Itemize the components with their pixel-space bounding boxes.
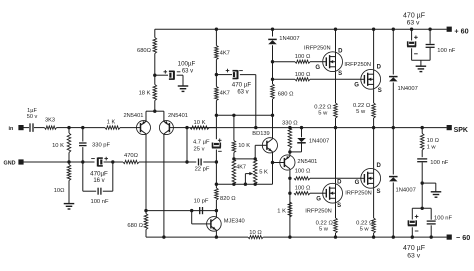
node gate1 junction [271, 60, 274, 63]
svg-text:22 pF: 22 pF [195, 166, 210, 172]
wire 1K to Q1 base [120, 127, 137, 129]
svg-text:G: G [354, 83, 359, 89]
wire Q2 base to feedback node [173, 127, 187, 129]
svg-text:50 v: 50 v [27, 114, 38, 120]
svg-text:100 nF: 100 nF [437, 48, 456, 54]
node +60 terminal [447, 27, 469, 36]
resistor 470Ω feedback [113, 153, 139, 164]
node gate3 junction [288, 177, 291, 180]
wire top rail [155, 28, 447, 30]
wire Q3 collector [289, 152, 291, 155]
svg-text:2N5401: 2N5401 [168, 113, 188, 119]
wire top to 4K7a [215, 29, 217, 45]
svg-text:680Ω: 680Ω [137, 48, 152, 54]
node clamp bottom junction [392, 235, 395, 238]
svg-text:25 v: 25 v [194, 146, 205, 152]
node Q2 collector bottom [162, 235, 165, 238]
resistor 100Ω gate M4 [294, 169, 361, 180]
svg-text:5 w: 5 w [356, 109, 366, 115]
wire Q2 collector down [163, 134, 165, 237]
svg-text:S: S [338, 71, 342, 77]
node -rail 100nF junction [430, 235, 433, 238]
svg-text:4K7: 4K7 [220, 51, 230, 57]
svg-text:1N4007: 1N4007 [396, 187, 416, 193]
diode 1N4007 clamp lower [389, 128, 416, 238]
svg-text:2N5401: 2N5401 [124, 113, 144, 119]
resistor 1K input [105, 119, 120, 129]
wire 3K3 to node A [57, 127, 70, 129]
transistor MJE340 VAS [207, 217, 245, 232]
node VAS-left junction [215, 114, 218, 117]
transistor Q3 2N5401 current limiter [280, 155, 318, 170]
node top rail ladder2 [215, 28, 218, 31]
node topright 100nF junction [428, 28, 431, 31]
svg-text:63 v: 63 v [407, 253, 420, 260]
resistor 4K7 bias [232, 159, 246, 184]
node output zobel junction [421, 126, 424, 129]
node A junction [67, 126, 70, 129]
svg-text:1N4007: 1N4007 [279, 36, 299, 42]
resistor 100Ω gate M2 [273, 72, 361, 81]
capacitor 100nF -rail filter [427, 208, 453, 237]
node mid-left junction [144, 209, 147, 212]
wire in pad to C1 [22, 127, 29, 129]
svg-text:330 Ω: 330 Ω [282, 120, 298, 126]
svg-text:820 Ω: 820 Ω [220, 196, 236, 202]
svg-text:+ 60: + 60 [454, 27, 468, 36]
node ladder2-bias2 junction [215, 183, 218, 186]
svg-text:4K7: 4K7 [220, 91, 230, 97]
diode 1N4007 clamp upper [389, 29, 418, 127]
node topright 470µF junction [410, 28, 413, 31]
svg-text:5 w: 5 w [319, 227, 329, 233]
svg-text:16 v: 16 v [93, 178, 104, 184]
svg-text:680 Ω: 680 Ω [127, 223, 143, 229]
wire tail to Q1 emitter [146, 111, 155, 121]
resistor 10K bias [232, 141, 250, 159]
resistor 820Ω [215, 184, 237, 210]
svg-text:100µF: 100µF [178, 61, 196, 68]
node bias2 4K7 junction [232, 183, 235, 186]
wire node B to R 1K [83, 127, 105, 129]
resistor 0.22Ω 5w M1 source [314, 72, 337, 128]
svg-text:10 Ω: 10 Ω [427, 138, 440, 144]
node MJE base junction [190, 209, 193, 212]
svg-text:MJE340: MJE340 [224, 219, 245, 225]
svg-text:S: S [377, 189, 381, 195]
wire topright join [412, 60, 431, 66]
wire gnd pad to 10K bottom [22, 161, 69, 163]
ground symbol decoupling [178, 86, 189, 91]
svg-text:470Ω: 470Ω [124, 153, 139, 159]
svg-text:1 w: 1 w [427, 145, 437, 151]
wire Q3 base [273, 162, 280, 164]
resistor 330Ω [282, 120, 298, 152]
svg-text:− 60: − 60 [456, 233, 470, 242]
node VAS-10K junction [232, 114, 235, 117]
svg-text:63 v: 63 v [407, 20, 420, 27]
svg-text:1N4007: 1N4007 [398, 86, 418, 92]
svg-text:63 v: 63 v [182, 69, 193, 75]
svg-text:D: D [377, 163, 382, 169]
capacitor 100µF 63v decoupling [155, 61, 196, 86]
capacitor 470µF 63v +rail filter [403, 12, 425, 60]
capacitor 100nF +rail filter [426, 29, 456, 60]
wire 470Ω to feedback node [139, 161, 187, 163]
diode 1N4007 gate clamp bottom [290, 128, 329, 152]
resistor 680Ω gate ladder [271, 79, 294, 115]
node VAS collector junction [215, 209, 218, 212]
resistor 680Ω upper-left [137, 38, 157, 55]
wire 680Ω to node D [154, 54, 156, 76]
wire to node C [69, 161, 83, 163]
svg-text:63 v: 63 v [237, 89, 248, 95]
node feedback bottom junction [185, 160, 188, 163]
resistor 10K feedback [190, 120, 209, 129]
node Q3 collector junction [288, 150, 291, 153]
node tail junction [153, 110, 156, 113]
wire Q1 collector down [145, 134, 147, 210]
svg-text:1 K: 1 K [277, 208, 286, 214]
svg-text:100 nF: 100 nF [90, 199, 109, 205]
svg-text:680 Ω: 680 Ω [278, 91, 294, 97]
wire ladder2 crossing signal [215, 115, 217, 139]
node B junction [81, 126, 84, 129]
node E junction [215, 73, 218, 76]
wire 22pF node down [215, 162, 217, 184]
node M3 source bottom [334, 235, 337, 238]
transistor Q2 2N5401 [159, 113, 188, 135]
svg-text:5 w: 5 w [360, 227, 370, 233]
wire bootstrap down to output rail [255, 75, 257, 128]
wire mid row [146, 210, 216, 212]
svg-text:D: D [377, 64, 382, 70]
wire M1 drain [335, 29, 337, 52]
resistor 4K7 lower [215, 75, 230, 116]
wire M3 drain [335, 128, 337, 184]
wire ground node down [421, 183, 423, 208]
node bootstrap junction [254, 126, 257, 129]
node SPK terminal [447, 125, 468, 134]
resistor 10K to ground [52, 128, 71, 162]
node BD139 emitter junction [271, 161, 274, 164]
wire bias1 row [234, 158, 255, 160]
node bias1-right junction [254, 157, 257, 160]
node M4 source bottom [372, 235, 375, 238]
capacitor 4.7µF 25v [193, 139, 222, 163]
resistor 0.22Ω 5w M3 source [316, 203, 338, 237]
svg-text:2N5401: 2N5401 [297, 159, 317, 165]
diode 1N4007 gate clamp top [268, 29, 299, 62]
wire output rail [187, 127, 447, 129]
capacitor 100nF feedback bypass loop [83, 162, 113, 205]
svg-text:470 µF: 470 µF [232, 82, 252, 89]
wire MJE base [192, 211, 207, 224]
ground symbol chassis [64, 204, 75, 209]
node output diode3 junction [300, 126, 303, 129]
svg-text:0.22 Ω: 0.22 Ω [316, 220, 334, 226]
svg-text:470µF: 470µF [90, 170, 108, 177]
node zobel ground junction [421, 181, 424, 184]
node GND terminal [4, 159, 24, 166]
ground symbol topright [416, 66, 427, 71]
resistor 100Ω gate M1 [273, 54, 323, 64]
wire zobel to ground [422, 183, 436, 192]
resistor 0.22Ω 5w M4 source [356, 188, 375, 237]
resistor 0.22Ω 5w M2 source [353, 89, 375, 127]
node gate2 junction [271, 78, 274, 81]
svg-text:S: S [337, 203, 341, 209]
node output M1 junction [334, 126, 337, 129]
wire node A to node B [69, 127, 83, 129]
resistor 10Ω to chassis ground [54, 162, 71, 203]
svg-text:100 Ω: 100 Ω [295, 54, 311, 60]
capacitor 470µF 63v bootstrap [216, 69, 255, 96]
svg-text:G: G [355, 180, 360, 186]
svg-text:4K7: 4K7 [236, 165, 246, 171]
node top rail M1 junction [334, 28, 337, 31]
node output clamp junction [392, 126, 395, 129]
ground symbol zobel [431, 192, 442, 197]
transistor M2 IRFP250N [344, 62, 381, 94]
node -rail 470µF junction [411, 235, 414, 238]
svg-text:100 Ω: 100 Ω [295, 72, 311, 78]
capacitor 100nF zobel [417, 159, 449, 183]
node output M2 junction [372, 126, 375, 129]
node top rail M2 junction [372, 28, 375, 31]
svg-text:4.7 µF: 4.7 µF [193, 140, 210, 146]
node top rail clamp junction [392, 28, 395, 31]
resistor 10Ω 1w zobel [420, 128, 439, 158]
svg-text:5 K: 5 K [259, 170, 268, 176]
node C junction [81, 160, 84, 163]
svg-text:GND: GND [4, 161, 16, 167]
svg-text:330 pF: 330 pF [92, 143, 111, 149]
trimmer 5K [253, 159, 268, 184]
capacitor 470µF 63v -rail filter [403, 208, 425, 259]
transistor M4 IRFP250N [345, 163, 381, 196]
wire BD139 base [255, 145, 262, 159]
svg-text:1 K: 1 K [107, 119, 116, 125]
node top rail gate-ladder junction [271, 28, 274, 31]
svg-text:SPK: SPK [454, 127, 468, 134]
transistor BD139 bias servo [252, 131, 277, 153]
svg-text:D: D [338, 49, 343, 55]
svg-text:BD139: BD139 [252, 131, 269, 137]
wire feedback vertical [186, 128, 188, 162]
svg-text:0.22 Ω: 0.22 Ω [356, 220, 374, 226]
transistor Q1 2N5401 [124, 113, 151, 135]
node shunt-right junction [111, 160, 114, 163]
svg-text:S: S [378, 88, 382, 94]
capacitor 22pF [187, 159, 216, 173]
svg-text:10 Ω: 10 Ω [249, 230, 262, 236]
wire VAS rail [216, 114, 272, 116]
wire BD139 emitter down [272, 152, 274, 162]
wire 4K7a to node E [215, 60, 217, 75]
svg-text:IRFP250N: IRFP250N [345, 191, 372, 197]
wire M4 drain [373, 128, 375, 169]
resistor 18K tail [139, 75, 157, 111]
wire top rail left segment [154, 29, 156, 37]
svg-text:IRFP250N: IRFP250N [304, 46, 331, 52]
svg-text:10 K: 10 K [194, 120, 206, 126]
wire bias2 row [216, 163, 272, 185]
svg-text:100 nF: 100 nF [434, 216, 453, 222]
resistor 10Ω rail decoupling [248, 230, 263, 239]
node wiper junction [244, 183, 247, 186]
resistor 680Ω lower-left [127, 211, 147, 238]
svg-text:470 µF: 470 µF [403, 245, 425, 252]
svg-text:10 K: 10 K [52, 143, 64, 149]
capacitor 330pF [79, 128, 110, 162]
svg-text:470 µF: 470 µF [403, 12, 425, 19]
svg-text:100 Ω: 100 Ω [295, 169, 311, 175]
wire BD139 collector up [272, 115, 274, 138]
wire 10K to output rail [209, 127, 216, 129]
svg-text:100 nF: 100 nF [430, 160, 449, 166]
resistor 4K7 upper [215, 46, 230, 60]
wire MJE emitter [215, 231, 217, 237]
transistor M1 IRFP250N [304, 46, 343, 78]
svg-text:10 pF: 10 pF [194, 198, 209, 204]
node 1K bottom junction [288, 235, 291, 238]
svg-text:IRFP250N: IRFP250N [344, 62, 371, 68]
node bottomright join [421, 207, 424, 210]
node -60 terminal [447, 233, 471, 242]
node MJE emitter bottom [215, 235, 218, 238]
svg-text:100 Ω: 100 Ω [295, 185, 311, 191]
node D junction [153, 74, 156, 77]
svg-text:5 w: 5 w [318, 110, 328, 116]
node gnd-10K junction [67, 160, 70, 163]
svg-text:in: in [9, 126, 14, 132]
capacitor 470µF 16v feedback [83, 157, 113, 184]
node bias2 5K junction [254, 183, 257, 186]
svg-text:0.22 Ω: 0.22 Ω [353, 103, 371, 109]
node Q2 base junction [185, 126, 188, 129]
node 22pF right junction [215, 160, 218, 163]
transistor M3 IRFP250N [305, 179, 342, 214]
node gate4 junction [288, 192, 291, 195]
wire C1 to R 3K3 [34, 127, 45, 129]
node output 330Ω junction [288, 126, 291, 129]
wire bottomright join [412, 207, 431, 209]
wire MJE collector [215, 211, 217, 217]
capacitor 1µF 50v input coupling [27, 108, 38, 132]
trimmer 5K wiper arrow [245, 172, 253, 184]
node VAS-right junction [271, 114, 274, 117]
svg-text:D: D [337, 179, 342, 185]
capacitor 10pF [194, 198, 209, 214]
wire bottom rail left [146, 236, 248, 238]
svg-text:10 K: 10 K [238, 143, 250, 149]
svg-text:G: G [316, 196, 321, 202]
svg-text:3K3: 3K3 [45, 118, 55, 124]
wire M2 drain [373, 29, 375, 69]
svg-text:10Ω: 10Ω [54, 188, 65, 194]
resistor 3K3 [45, 118, 57, 130]
node bias1-left junction [232, 157, 235, 160]
wire Q3 emitter down [289, 170, 291, 237]
wire gate ladder mid [272, 62, 274, 80]
svg-text:IRFP250N: IRFP250N [305, 208, 332, 214]
wire tail to Q2 emitter [155, 111, 164, 121]
svg-text:G: G [315, 65, 320, 71]
svg-text:1N4007: 1N4007 [309, 139, 329, 145]
node input terminal IN [9, 125, 24, 132]
wire bottom rail right [263, 236, 447, 238]
resistor 100Ω gate M3 [294, 185, 323, 194]
wire 10K bias top [233, 115, 235, 140]
svg-text:18 K: 18 K [139, 90, 151, 96]
resistor 1K pulldown [277, 202, 291, 217]
